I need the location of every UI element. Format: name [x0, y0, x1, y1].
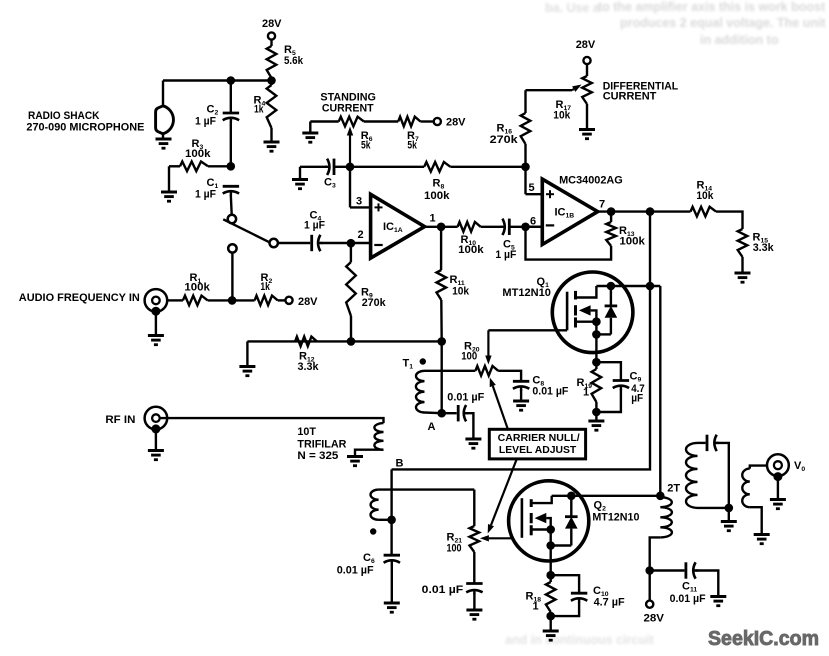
svg-text:100k: 100k	[458, 244, 484, 256]
svg-text:A: A	[428, 421, 436, 433]
svg-text:T1: T1	[403, 358, 414, 371]
svg-text:1 µF: 1 µF	[195, 116, 216, 128]
svg-text:7: 7	[599, 199, 605, 211]
svg-text:270-090 MICROPHONE: 270-090 MICROPHONE	[26, 122, 144, 134]
svg-text:R8: R8	[433, 178, 445, 191]
svg-text:C6: C6	[363, 552, 375, 565]
svg-text:0.01 µF: 0.01 µF	[670, 593, 706, 605]
svg-text:TRIFILAR: TRIFILAR	[297, 439, 346, 451]
svg-text:28V: 28V	[644, 612, 665, 624]
svg-text:100k: 100k	[184, 281, 210, 293]
svg-text:10k: 10k	[696, 190, 714, 202]
svg-text:0.01 µF: 0.01 µF	[337, 564, 374, 576]
svg-text:Q2: Q2	[594, 500, 607, 513]
svg-text:0.01 µF: 0.01 µF	[447, 391, 484, 403]
svg-text:3: 3	[356, 196, 362, 208]
svg-text:SeekIC.com: SeekIC.com	[708, 627, 819, 650]
svg-text:1: 1	[430, 213, 436, 225]
svg-text:MC34002AG: MC34002AG	[559, 174, 623, 186]
svg-text:V0: V0	[794, 460, 805, 473]
svg-text:5: 5	[529, 182, 535, 194]
svg-text:N = 325: N = 325	[297, 450, 338, 462]
svg-text:3.3k: 3.3k	[753, 242, 775, 254]
svg-text:1: 1	[583, 387, 589, 399]
svg-text:RADIO SHACK: RADIO SHACK	[28, 110, 100, 122]
svg-text:AUDIO FREQUENCY IN: AUDIO FREQUENCY IN	[19, 292, 140, 304]
svg-text:1: 1	[533, 601, 539, 613]
svg-text:1 µF: 1 µF	[195, 189, 216, 201]
svg-text:28V: 28V	[446, 117, 466, 129]
svg-text:C3: C3	[324, 177, 336, 190]
svg-text:100: 100	[461, 351, 477, 363]
svg-text:0.01 µF: 0.01 µF	[422, 584, 464, 596]
svg-text:3.3k: 3.3k	[298, 361, 320, 373]
svg-text:100k: 100k	[424, 190, 450, 202]
svg-text:10k: 10k	[553, 110, 571, 122]
svg-text:LEVEL ADJUST: LEVEL ADJUST	[499, 445, 577, 456]
svg-text:CURRENT: CURRENT	[322, 102, 374, 114]
svg-text:28V: 28V	[298, 296, 318, 308]
svg-text:28V: 28V	[576, 39, 596, 51]
svg-text:C9: C9	[630, 371, 642, 384]
svg-text:100: 100	[447, 543, 462, 555]
svg-text:MT12N10: MT12N10	[592, 512, 639, 524]
svg-text:4.7 µF: 4.7 µF	[594, 597, 625, 609]
svg-text:CURRENT: CURRENT	[603, 91, 657, 103]
svg-text:0.01 µF: 0.01 µF	[532, 386, 568, 398]
svg-text:1k: 1k	[260, 281, 270, 293]
svg-text:5k: 5k	[361, 139, 371, 151]
svg-text:MT12N10: MT12N10	[502, 287, 550, 299]
svg-text:2: 2	[358, 229, 364, 241]
svg-text:6: 6	[530, 216, 536, 228]
svg-text:100k: 100k	[619, 236, 645, 248]
svg-text:28V: 28V	[262, 18, 282, 30]
svg-text:10T: 10T	[297, 426, 316, 438]
svg-text:270k: 270k	[490, 134, 519, 146]
svg-text:5.6k: 5.6k	[284, 55, 304, 67]
svg-text:RF IN: RF IN	[105, 414, 135, 426]
svg-text:1k: 1k	[254, 104, 264, 116]
svg-text:270k: 270k	[362, 297, 387, 309]
svg-text:1 µF: 1 µF	[495, 249, 516, 261]
svg-text:CARRIER NULL/: CARRIER NULL/	[498, 433, 580, 444]
svg-text:10k: 10k	[452, 285, 470, 297]
svg-text:100k: 100k	[185, 148, 211, 160]
svg-text:5k: 5k	[407, 139, 417, 151]
svg-text:µF: µF	[631, 392, 643, 404]
svg-text:1 µF: 1 µF	[304, 219, 325, 231]
svg-text:B: B	[396, 458, 404, 470]
svg-text:2T: 2T	[667, 483, 680, 495]
svg-text:C11: C11	[682, 581, 697, 594]
